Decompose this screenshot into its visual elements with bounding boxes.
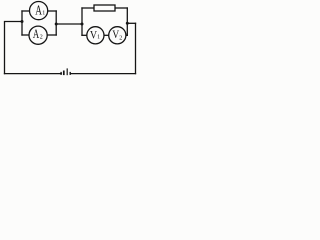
- resistor R: [94, 5, 115, 11]
- ammeter A1: [29, 2, 47, 20]
- svg-text:1: 1: [42, 10, 45, 16]
- wire: right bus of resistor/voltmeter section: [126, 8, 128, 35]
- svg-text:2: 2: [119, 35, 122, 41]
- voltmeter V2: [109, 27, 126, 44]
- wire: stub to ammeter A1 left: [22, 10, 29, 12]
- wire: stub to voltmeter V1 left: [82, 34, 87, 36]
- node: junction dot left bus: [21, 20, 24, 23]
- wire: left outer vertical with top corner: [5, 22, 23, 74]
- wire: stub to resistor left: [82, 7, 94, 9]
- svg-text:A: A: [35, 2, 42, 19]
- wire: link between voltmeters: [104, 34, 109, 36]
- wire: bottom left segment: [5, 73, 62, 75]
- wire: stub from resistor right: [115, 7, 127, 9]
- node: junction dot ammeter right bus: [55, 23, 58, 26]
- wire: middle horizontal link: [56, 23, 82, 25]
- wire: stub from voltmeter V2 right: [126, 34, 128, 36]
- wire: left bus of resistor/voltmeter section: [81, 8, 83, 35]
- node: junction dot voltmeter left bus: [81, 23, 84, 26]
- wire: bottom right segment: [70, 73, 135, 75]
- svg-text:A: A: [33, 27, 39, 41]
- wire: right outer vertical: [135, 23, 137, 73]
- node: junction dot voltmeter right bus: [126, 22, 129, 25]
- wire: stub from ammeter A1 right: [48, 10, 56, 12]
- svg-text:2: 2: [40, 34, 43, 40]
- wire: stub to ammeter A2 left: [22, 34, 29, 36]
- voltmeter V1: [87, 27, 104, 44]
- wire: left bus of ammeter branch: [21, 11, 23, 35]
- ammeter A2: [29, 26, 47, 44]
- wire: right bus of ammeter branch: [55, 11, 57, 35]
- svg-text:1: 1: [97, 34, 100, 40]
- battery cell: [61, 68, 70, 75]
- wire: right exit horizontal: [127, 22, 135, 24]
- wire: stub from ammeter A2 right: [47, 34, 56, 36]
